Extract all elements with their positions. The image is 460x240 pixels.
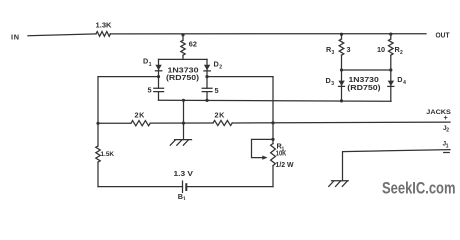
- svg-text:+: +: [444, 113, 448, 122]
- svg-text:2: 2: [219, 65, 222, 71]
- svg-text:3: 3: [332, 50, 335, 56]
- svg-text:4: 4: [403, 80, 406, 86]
- svg-text:2: 2: [400, 50, 403, 56]
- svg-text:(RD750): (RD750): [347, 83, 381, 92]
- svg-text:10K: 10K: [276, 148, 287, 157]
- svg-text:JACKS: JACKS: [426, 109, 451, 116]
- svg-text:62: 62: [189, 39, 197, 48]
- svg-text:D: D: [214, 59, 219, 68]
- svg-text:(RD750): (RD750): [166, 73, 200, 82]
- svg-text:1/2 W: 1/2 W: [276, 160, 294, 169]
- svg-text:2K: 2K: [215, 110, 226, 119]
- svg-text:5: 5: [148, 86, 152, 95]
- svg-text:D: D: [397, 75, 402, 84]
- svg-text:1.3K: 1.3K: [96, 20, 113, 29]
- svg-text:10: 10: [377, 45, 385, 54]
- svg-text:1: 1: [149, 62, 152, 68]
- svg-text:D: D: [143, 57, 148, 66]
- svg-text:1.3 V: 1.3 V: [174, 169, 194, 178]
- svg-text:D: D: [326, 76, 331, 85]
- svg-text:3: 3: [331, 81, 334, 87]
- svg-text:SeekIC.com: SeekIC.com: [382, 180, 456, 198]
- svg-text:2K: 2K: [135, 110, 146, 119]
- svg-text:OUT: OUT: [436, 30, 450, 39]
- svg-text:2: 2: [446, 128, 449, 134]
- svg-text:1: 1: [446, 143, 449, 149]
- svg-text:1: 1: [183, 197, 186, 200]
- svg-text:3: 3: [347, 45, 351, 54]
- svg-text:5: 5: [215, 86, 219, 95]
- svg-text:IN: IN: [11, 32, 20, 41]
- svg-text:1.5K: 1.5K: [101, 151, 115, 158]
